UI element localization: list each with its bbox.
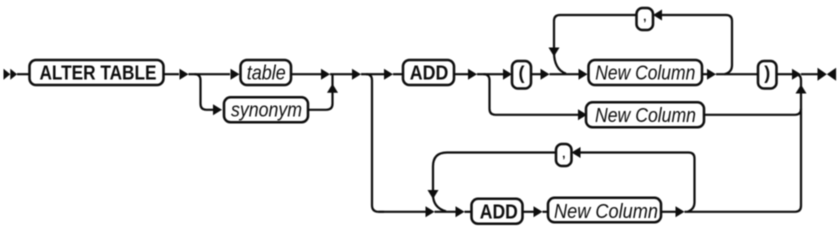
variable box synonym <box>224 97 308 122</box>
keyword box ADD <box>403 60 454 85</box>
arrow after ALTER TABLE <box>180 69 189 80</box>
arrow after table <box>321 69 330 80</box>
left arrow before bottom comma <box>572 147 581 158</box>
arrow before bottom ADD <box>456 206 465 217</box>
down arrow on top loop left <box>549 48 560 57</box>
svg-text:ADD: ADD <box>410 63 449 85</box>
symbol box comma top loop <box>637 8 654 30</box>
wire after bottom ADD <box>523 211 534 213</box>
wire after ALTER TABLE <box>164 73 180 75</box>
arrow before table <box>231 69 240 80</box>
svg-text:New Column: New Column <box>595 63 695 85</box>
wire branch A down to synonym <box>195 74 214 110</box>
svg-text:table: table <box>247 63 286 85</box>
arrow after ADD <box>468 69 477 80</box>
symbol box open paren <box>512 61 531 89</box>
svg-text:New Column: New Column <box>554 201 658 223</box>
end symbol <box>818 68 837 81</box>
wire after ADD <box>454 73 468 75</box>
svg-text:): ) <box>764 63 770 83</box>
arrow before plain New Column <box>578 109 587 120</box>
variable box New Column bottom <box>548 198 661 223</box>
wire top alt <box>196 73 230 75</box>
arrow before branch B <box>352 69 361 80</box>
svg-text:New Column: New Column <box>595 105 696 127</box>
wire merge to end <box>801 73 818 75</box>
wire to ADD arrow <box>370 73 384 75</box>
wire to paren arrow <box>486 73 503 75</box>
arrow before ADD <box>384 69 393 80</box>
top loop wire left part <box>554 15 637 21</box>
bottom loop left vertical <box>432 167 434 191</box>
wire to bottom New Column <box>543 211 549 213</box>
symbol box close paren <box>758 61 777 89</box>
arrow before open paren <box>503 69 512 80</box>
top loop left vertical curve to main <box>554 52 566 74</box>
svg-text:,: , <box>643 10 646 24</box>
arrow before synonym <box>213 104 222 115</box>
top loop left vertical <box>553 21 555 48</box>
wire after close paren <box>777 73 793 75</box>
down arrow on bottom loop left <box>428 190 439 199</box>
arrow after open paren <box>541 69 550 80</box>
arrow bottom entry <box>426 206 435 217</box>
wire to ADD <box>393 73 403 75</box>
wire branch C down to plain New Column <box>484 74 503 115</box>
svg-text:ALTER TABLE: ALTER TABLE <box>40 63 157 85</box>
wire past loop branch to right merge <box>685 111 802 212</box>
wire after bottom New Column <box>661 211 676 213</box>
wire bottom to loop merge <box>435 211 456 213</box>
wire branch C horizontal <box>502 114 578 116</box>
wire to branch B <box>361 73 370 75</box>
wire merge to arrow <box>330 73 352 75</box>
left arrow before top comma <box>653 10 662 21</box>
wire under loop merge <box>550 73 579 75</box>
top loop right vertical up from main <box>725 15 733 74</box>
arrow before New Column paren path <box>579 69 588 80</box>
svg-text:ADD: ADD <box>480 201 518 223</box>
start symbol <box>4 69 18 80</box>
svg-text:,: , <box>562 146 565 160</box>
top loop wire right part <box>662 14 726 16</box>
wire after table <box>291 73 321 75</box>
variable box table <box>241 60 292 85</box>
wire after open paren <box>531 73 541 75</box>
bottom loop wire right part <box>580 151 689 153</box>
arrow after close paren <box>792 69 801 80</box>
wire bottom entry <box>379 211 426 213</box>
wire to branch A <box>189 73 197 75</box>
up arrow at table merge <box>327 84 338 93</box>
wire branch B down to bottom loop <box>366 74 384 212</box>
arrow after bottom ADD <box>534 206 543 217</box>
svg-text:synonym: synonym <box>231 100 302 122</box>
bottom loop wire left part <box>433 153 556 167</box>
svg-text:(: ( <box>519 63 525 83</box>
variable box New Column plain path <box>586 102 704 127</box>
wire after synonym up to merge <box>308 74 333 110</box>
wire to ALTER TABLE <box>17 73 30 75</box>
symbol box comma bottom loop <box>556 144 572 166</box>
variable box New Column paren path <box>589 60 703 85</box>
right merge vertical <box>795 74 801 111</box>
wire after plain New Column <box>704 109 801 115</box>
up arrow on right merge <box>796 85 807 94</box>
keyword box ADD bottom <box>472 199 523 224</box>
keyword box ALTER TABLE <box>30 60 164 85</box>
wire to close paren <box>716 73 758 75</box>
wire after New Column paren path <box>702 73 707 75</box>
arrow after New Column paren path <box>707 69 716 80</box>
bottom loop left curve to wire <box>433 195 446 212</box>
wire to bottom ADD <box>465 211 472 213</box>
arrow after bottom New Column <box>676 206 685 217</box>
bottom loop right vertical <box>688 153 695 212</box>
wire to branch C <box>477 73 486 75</box>
